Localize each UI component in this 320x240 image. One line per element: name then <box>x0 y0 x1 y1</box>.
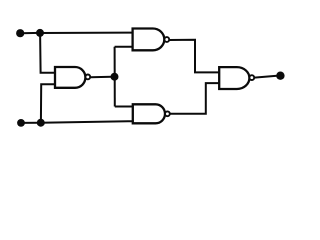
output terminal Y dot <box>276 72 284 80</box>
nand gate U4 <box>219 67 249 89</box>
wire U1 output to junction C <box>90 76 112 79</box>
junction B <box>37 119 45 127</box>
wire junction C vertical <box>114 47 116 107</box>
nand gate U3 <box>133 104 165 123</box>
wire B to junction <box>21 122 41 124</box>
junction C <box>111 73 119 81</box>
wire U2 output to U4 top input <box>169 40 219 73</box>
junction A <box>36 29 44 37</box>
wire junction A to U2 top input <box>40 32 133 34</box>
wire A to junction <box>20 32 40 34</box>
wire U3 output to U4 bottom input <box>170 83 219 114</box>
wire junction B to U3 bottom input <box>41 121 133 123</box>
nand gate U1 <box>55 67 85 88</box>
input terminal A dot <box>16 29 24 37</box>
wire junction C to U2 bottom input <box>115 46 133 48</box>
bubble U4 <box>249 75 254 80</box>
wire junction C to U3 top input <box>115 106 133 108</box>
wire junction B up to U1 bottom input <box>41 84 56 123</box>
nand gate U2 <box>133 28 165 50</box>
bubble U2 <box>164 37 169 42</box>
input terminal B dot <box>17 119 25 127</box>
wire U4 output to terminal Y <box>254 76 277 78</box>
bubble U3 <box>165 111 170 116</box>
wire junction A down to U1 top input <box>40 33 56 73</box>
bubble U1 <box>85 75 90 80</box>
